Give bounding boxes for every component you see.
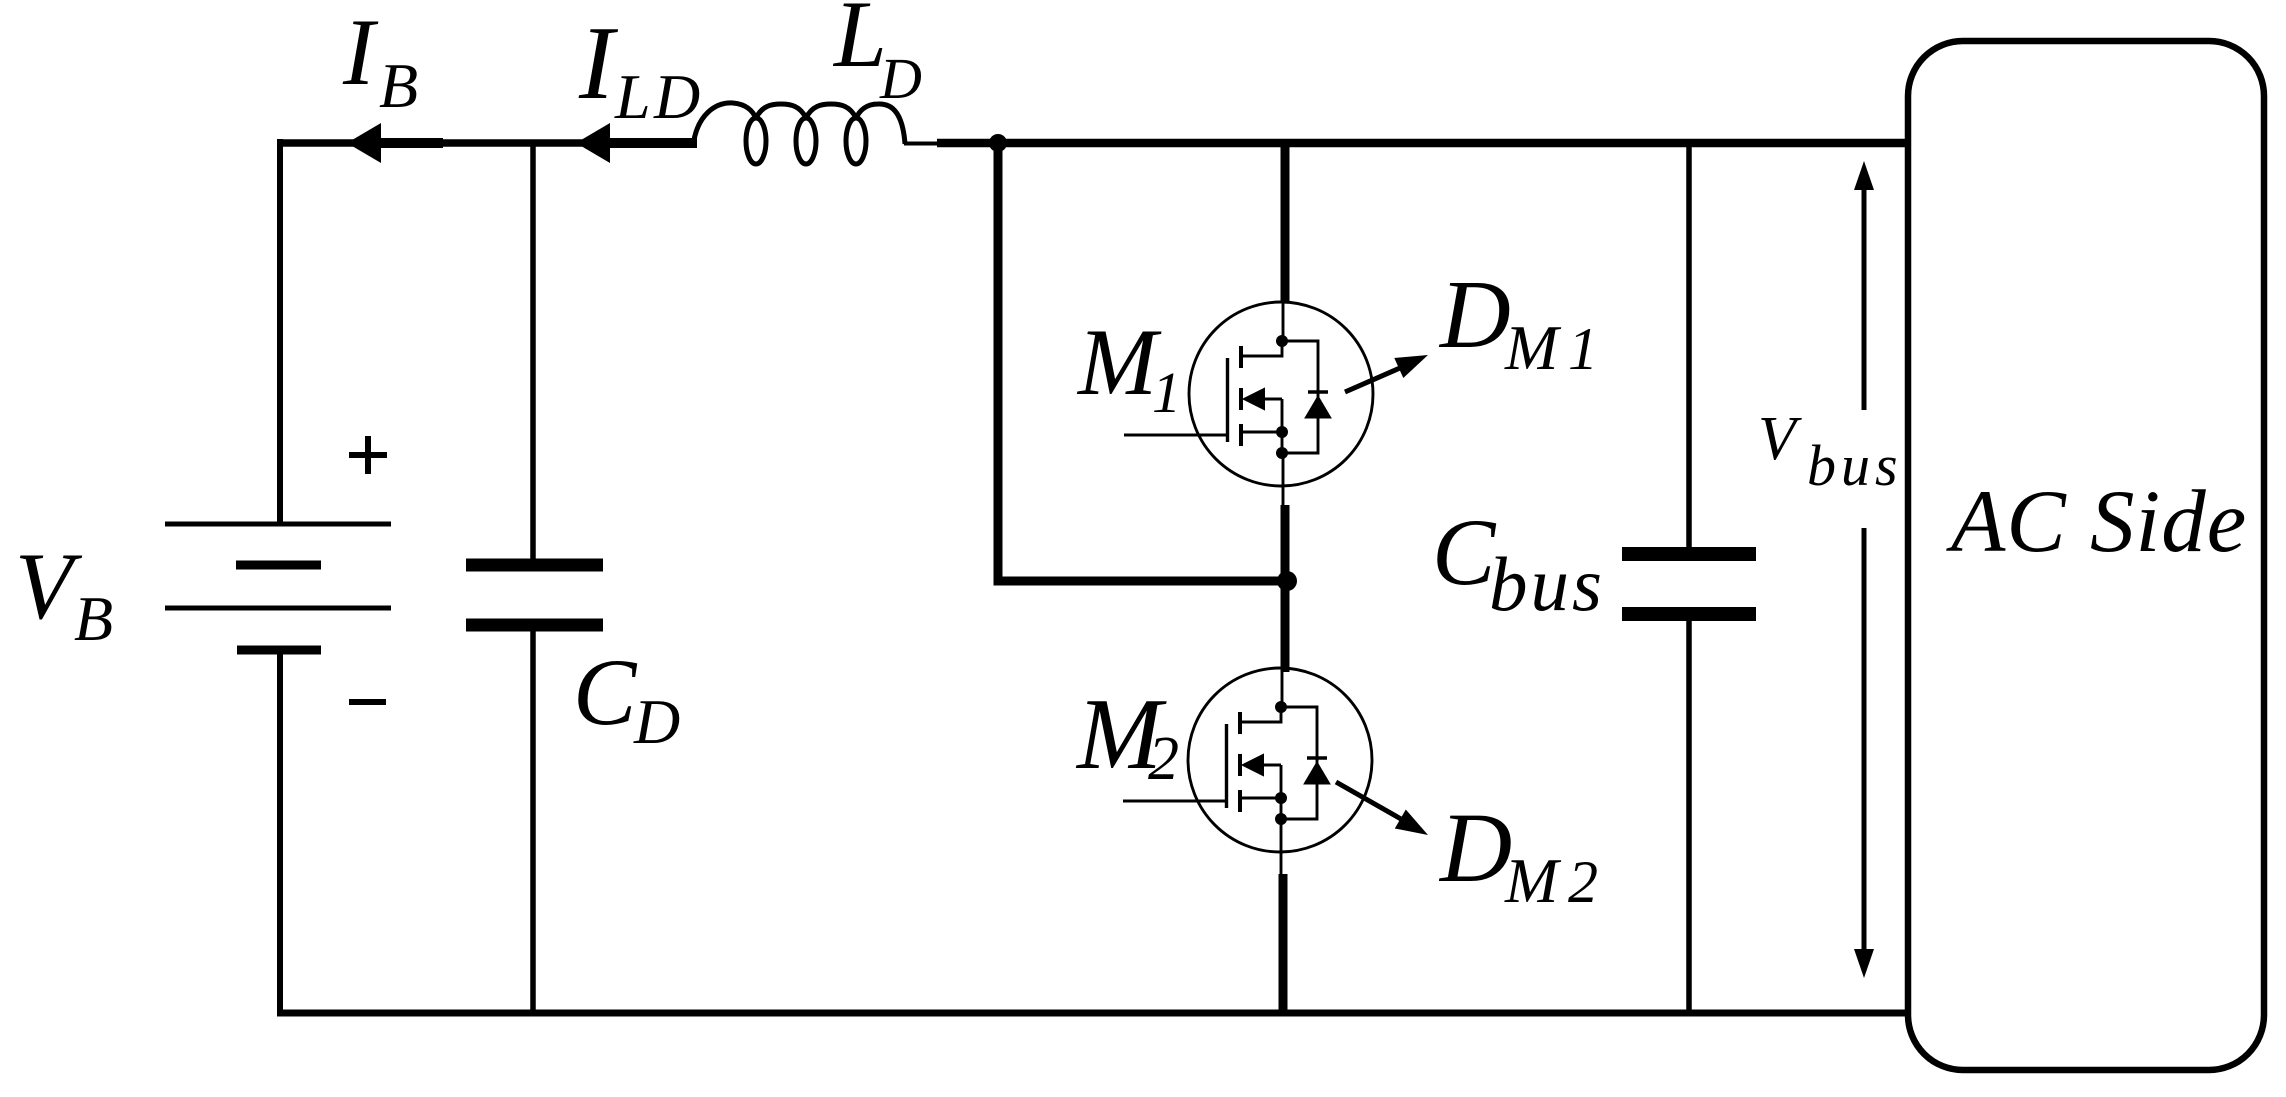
diode DM1 triangle [1305, 396, 1331, 418]
svg-text:1: 1 [1152, 360, 1181, 425]
svg-text:bus: bus [1807, 433, 1903, 498]
measurement arrow Vbus bottom head [1854, 949, 1874, 978]
diode DM2 branch wire [1281, 707, 1317, 819]
svg-text:bus: bus [1489, 541, 1605, 627]
wire M1 drain [1281, 143, 1290, 303]
capacitor Cbus [1622, 554, 1756, 614]
transistor M2 [1123, 668, 1372, 852]
svg-text:V: V [1758, 405, 1802, 473]
svg-text:M: M [1504, 845, 1562, 916]
annotation arrow DM2 shaft [1336, 782, 1401, 819]
svg-text:L: L [614, 61, 651, 132]
transistor M2 diode junction dot [1275, 813, 1287, 825]
svg-text:D: D [633, 686, 680, 757]
svg-text:M: M [1504, 312, 1562, 383]
transistor M2 drain junction dot [1275, 701, 1287, 713]
svg-text:D: D [653, 61, 700, 132]
wire Cbus top lead [1686, 143, 1692, 549]
transistor M2 channel dashes [1238, 712, 1242, 812]
arrow IB head [347, 123, 381, 163]
wire top rail left [277, 139, 693, 147]
wire node to M2 drain [1281, 581, 1290, 672]
battery VB plate positive long 2 [165, 606, 391, 611]
svg-text:D: D [1438, 792, 1512, 903]
transistor M1 source lead [1243, 431, 1282, 434]
annotation arrow DM2 [1336, 782, 1428, 835]
battery VB plus sign [349, 436, 387, 474]
transistor M2 body circle [1188, 668, 1372, 852]
measurement arrow Vbus top head [1854, 161, 1874, 190]
measurement arrow Vbus lower line [1862, 528, 1867, 955]
arrow IB shaft [379, 138, 443, 148]
svg-text:D: D [1438, 261, 1511, 369]
wire CD top lead [530, 143, 536, 560]
arrow ILD [576, 123, 697, 163]
svg-text:I: I [342, 0, 379, 105]
transistor M1 channel dashes [1239, 346, 1243, 446]
wire switch-node branch [998, 143, 1287, 581]
wire M1 source to node [1282, 453, 1285, 510]
transistor M1 gate stub [1124, 434, 1227, 437]
transistor M2 body arrow [1243, 755, 1263, 775]
svg-text:I: I [578, 4, 619, 121]
battery VB plate negative short [236, 561, 321, 570]
capacitor CD [466, 565, 603, 625]
svg-text:M: M [1076, 309, 1162, 415]
arrow ILD shaft [609, 138, 697, 148]
transistor M1 body arrow [1244, 389, 1264, 409]
wire bottom rail [277, 1010, 1907, 1017]
svg-text:D: D [879, 46, 922, 111]
battery VB plate positive long [165, 522, 391, 527]
AC side block [1908, 41, 2264, 1070]
transistor M1 source junction dot [1276, 426, 1288, 438]
svg-text:B: B [74, 583, 113, 654]
capacitor Cbus bottom plate [1622, 607, 1756, 621]
wire battery bottom lead [277, 650, 283, 1016]
capacitor CD bottom plate [466, 619, 603, 632]
arrow ILD head [576, 123, 610, 163]
transistor M1 body lead [1260, 399, 1282, 453]
svg-text:V: V [15, 533, 83, 639]
svg-text:AC Side: AC Side [1946, 473, 2247, 571]
svg-text:2: 2 [1568, 849, 1598, 915]
diode DM2 triangle [1304, 762, 1330, 784]
svg-text:B: B [379, 50, 418, 121]
transistor M2 drain lead [1242, 707, 1281, 722]
wire CD bottom lead [530, 631, 536, 1013]
transistor M1 [1124, 302, 1373, 486]
battery VB [165, 436, 391, 702]
transistor M2 body lead [1259, 765, 1281, 819]
svg-text:2: 2 [1148, 725, 1179, 793]
wire Cbus bottom lead [1686, 620, 1692, 1013]
inductor LD [693, 103, 905, 164]
annotation arrow DM1 head [1394, 355, 1428, 378]
transistor M1 drain lead [1243, 341, 1282, 356]
transistor M1 diode junction dot [1276, 447, 1288, 459]
capacitor CD top plate [466, 559, 603, 572]
svg-text:1: 1 [1568, 316, 1598, 382]
svg-text:L: L [832, 0, 887, 87]
battery VB minus sign [349, 699, 386, 705]
wire top rail right [937, 139, 1907, 148]
battery VB plate negative short 2 [237, 646, 321, 655]
arrow IB [347, 123, 443, 163]
wire battery top lead [277, 139, 283, 524]
capacitor Cbus top plate [1622, 547, 1756, 561]
transistor M1 body circle [1189, 302, 1373, 486]
measurement arrow Vbus upper line [1862, 186, 1867, 410]
transistor M2 gate stub [1123, 800, 1226, 803]
transistor M2 gate bar [1225, 724, 1228, 808]
diode DM2 cathode bar [1307, 756, 1327, 760]
annotation arrow DM1 [1345, 355, 1428, 392]
transistor M2 source junction dot [1275, 792, 1287, 804]
svg-text:C: C [1432, 499, 1497, 605]
transistor M1 drain junction dot [1276, 335, 1288, 347]
wire M2 source to bottom rail [1280, 819, 1283, 878]
transistor M1 gate bar [1226, 358, 1229, 442]
node junction dot mid [1277, 571, 1297, 591]
diode DM1 cathode bar [1308, 390, 1328, 394]
node junction dot top [989, 134, 1007, 152]
svg-text:C: C [573, 639, 638, 745]
diode DM1 branch wire [1282, 341, 1318, 453]
annotation arrow DM2 head [1395, 810, 1428, 836]
wire inductor right lead [904, 142, 940, 146]
measurement arrow Vbus [1854, 161, 1874, 978]
annotation arrow DM1 shaft [1345, 368, 1400, 392]
transistor M2 source lead [1242, 797, 1281, 800]
